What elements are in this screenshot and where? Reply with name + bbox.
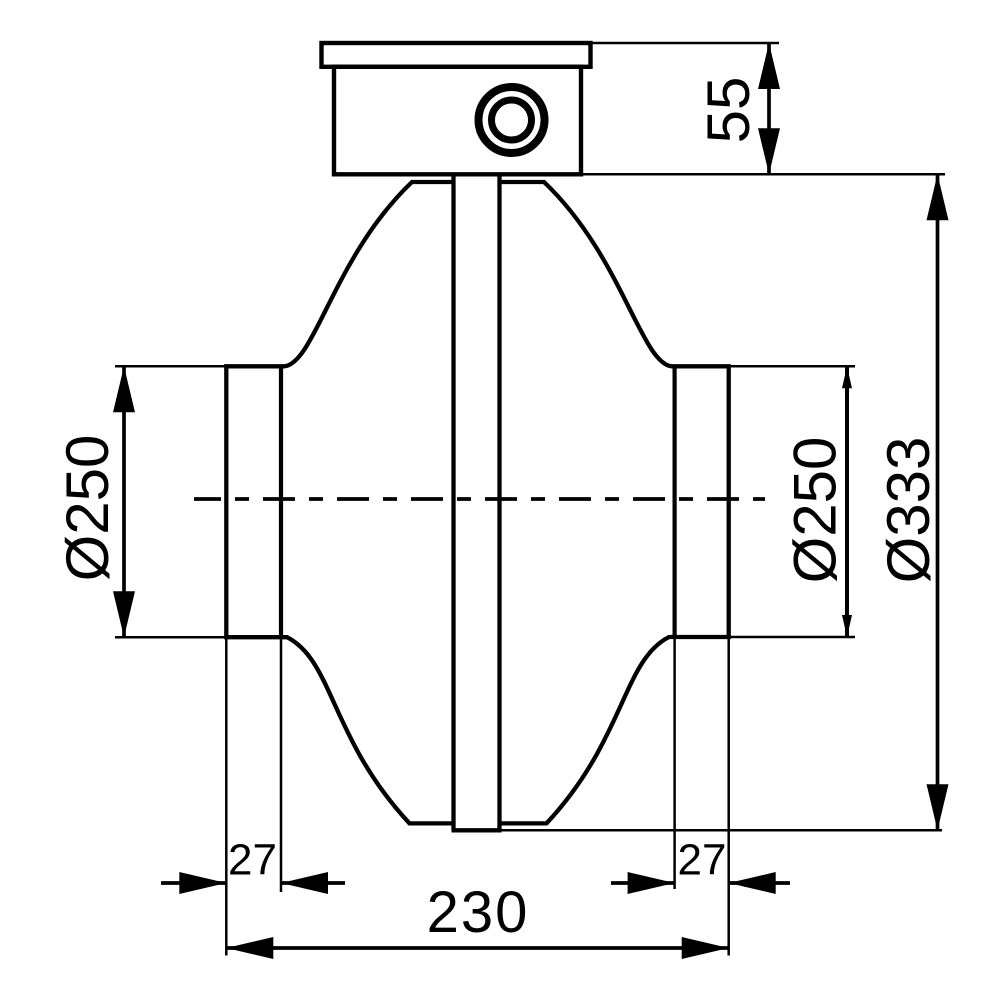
arrow 27 left b <box>281 872 328 894</box>
right spigot inner edge <box>672 366 676 637</box>
arrow right 250 down small <box>842 615 852 637</box>
svg-text:Ø250: Ø250 <box>782 437 849 584</box>
arrow 27 left a <box>179 872 226 894</box>
dimension line 55 <box>767 43 771 174</box>
extension line bottom 55 / top 333 <box>583 173 945 176</box>
extension line bottom 333 <box>502 829 943 832</box>
extension line right spigot bottom <box>729 636 855 639</box>
arrow left 250 down <box>113 591 135 637</box>
svg-text:Ø333: Ø333 <box>875 437 942 584</box>
svg-text:55: 55 <box>695 77 762 144</box>
svg-text:Ø250: Ø250 <box>54 435 121 582</box>
arrow 333 down <box>927 784 949 830</box>
central duct strip left edge <box>451 174 455 830</box>
arrow 230 left <box>226 937 273 959</box>
extension line 27 left inner <box>280 637 283 892</box>
dimension line left 250 <box>122 366 126 637</box>
dimension line 27 right tail b <box>729 881 790 885</box>
fan body right outline <box>500 182 729 823</box>
dimension line right 250 <box>845 366 849 637</box>
extension line 27 right inner <box>727 637 730 956</box>
arrow 333 up <box>927 174 949 220</box>
fan body left outline <box>226 182 453 823</box>
extension line left spigot bottom <box>115 636 226 639</box>
svg-text:27: 27 <box>228 836 277 885</box>
extension line top 55 <box>591 42 779 45</box>
dimension line 27 left tail a <box>161 881 226 885</box>
extension line left spigot top <box>115 365 226 368</box>
extension line right spigot top <box>729 365 855 368</box>
svg-text:230: 230 <box>427 880 530 945</box>
dimension line 230 <box>226 946 728 950</box>
central duct strip right edge <box>497 174 501 830</box>
central duct strip bottom <box>452 828 502 832</box>
arrow 55 up <box>758 43 780 89</box>
arrow right 250 up small <box>842 366 852 388</box>
junction box lid <box>322 43 591 67</box>
arrow left 250 up <box>113 366 135 412</box>
left spigot inner edge <box>279 366 283 637</box>
centerline <box>194 497 765 501</box>
extension line 27 left outer <box>225 637 228 955</box>
arrow 55 down <box>758 128 780 174</box>
junction box body <box>334 67 581 175</box>
extension line 27 right outer <box>673 637 676 889</box>
cable gland outer ring <box>479 87 545 153</box>
cable gland inner ring <box>492 100 532 140</box>
dimension line 333 <box>936 174 940 830</box>
arrow 27 right a <box>628 872 675 894</box>
dimension line 27 left tail b <box>281 881 345 885</box>
dimension line 27 right tail a <box>611 881 675 885</box>
svg-text:27: 27 <box>678 836 727 885</box>
arrow 27 right b <box>729 872 776 894</box>
arrow 230 right <box>682 937 729 959</box>
